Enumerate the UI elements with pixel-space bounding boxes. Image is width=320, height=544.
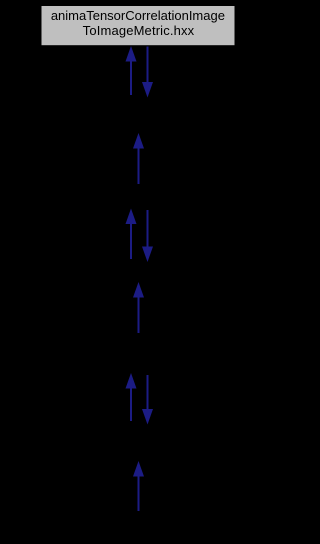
wire: edge pair 3 up arrow (126, 373, 137, 421)
wire: single up arrow 3 (133, 461, 144, 511)
svg-text:ToImageMetric.hxx: ToImageMetric.hxx (83, 23, 195, 38)
wire: edge pair 1 up arrow (126, 46, 137, 95)
wire: edge pair 3 down arrow (142, 375, 153, 425)
wire: single up arrow 2 (133, 282, 144, 333)
svg-text:animaTensorCorrelationImage: animaTensorCorrelationImage (51, 8, 225, 23)
wire: edge pair 2 down arrow (142, 210, 153, 262)
wire: edge pair 1 down arrow (142, 47, 153, 98)
wire: edge pair 2 up arrow (126, 209, 137, 260)
wire: single up arrow 1 (133, 133, 144, 184)
node animaTensorCorrelationImageToImageMetric.hxx (42, 6, 235, 45)
